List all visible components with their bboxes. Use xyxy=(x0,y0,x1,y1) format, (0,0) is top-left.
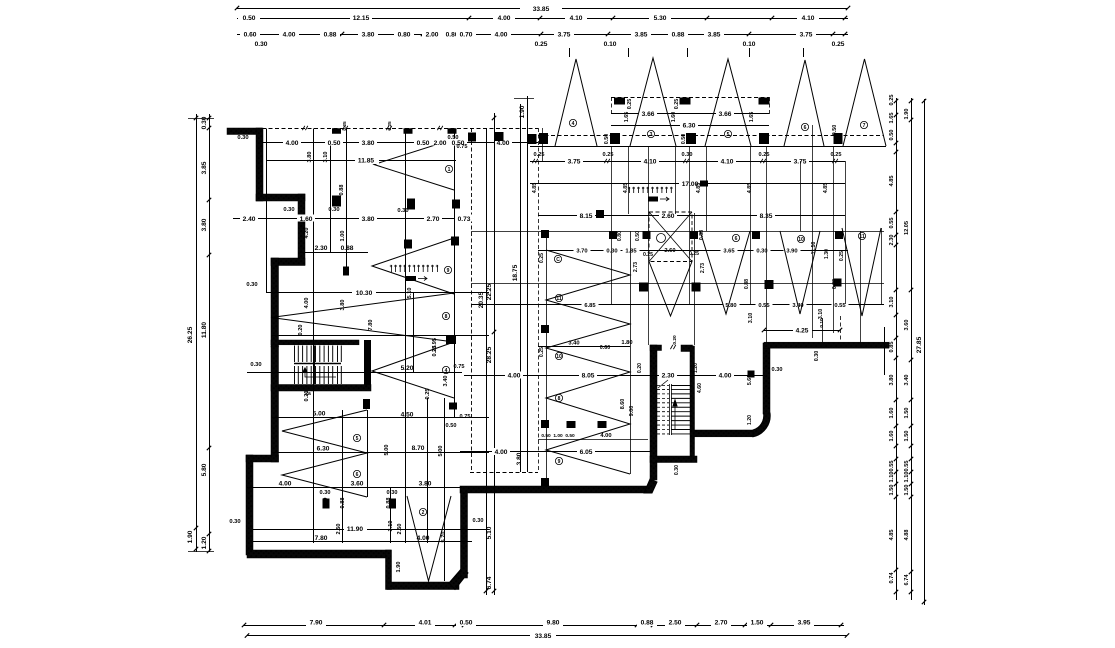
svg-text:11.80: 11.80 xyxy=(201,322,208,338)
line y231 xyxy=(471,231,884,233)
svg-text:1.60: 1.60 xyxy=(671,112,677,123)
stair S1 rail xyxy=(294,363,341,365)
wall west x271 lower xyxy=(271,346,279,462)
wall chamfer bottom-centre xyxy=(449,568,468,590)
svg-text:1.50: 1.50 xyxy=(904,431,910,442)
svg-text:3.75: 3.75 xyxy=(568,159,581,166)
svg-text:1: 1 xyxy=(448,167,451,173)
wall stair-room jamb xyxy=(364,340,371,352)
dim line y451 xyxy=(460,451,650,453)
svg-text:1.85: 1.85 xyxy=(625,249,637,255)
svg-text:1.90: 1.90 xyxy=(396,562,402,573)
dim line y330 4.25 xyxy=(764,330,840,332)
labels y218 xyxy=(240,215,258,222)
svg-text:5.30: 5.30 xyxy=(654,15,667,22)
svg-text:0.80: 0.80 xyxy=(617,231,623,241)
svg-text:0.25: 0.25 xyxy=(539,347,545,357)
svg-text:7.80: 7.80 xyxy=(315,535,328,542)
columns row y138 xyxy=(528,134,537,144)
svg-text:0.25: 0.25 xyxy=(627,99,633,110)
svg-text:2.50: 2.50 xyxy=(336,524,342,535)
column left of wall corner xyxy=(748,371,755,378)
labels y529 y543 xyxy=(344,525,367,533)
labels y160 xyxy=(355,156,379,164)
wall east x763 xyxy=(763,343,770,414)
wall stairwell west x650 xyxy=(650,345,657,480)
columns row y200 xyxy=(407,199,415,210)
long dashed line y135 right xyxy=(538,135,884,137)
svg-text:8.05: 8.05 xyxy=(582,373,595,380)
svg-text:0.25: 0.25 xyxy=(839,251,845,261)
dimension chain bottom row1 xyxy=(244,625,844,627)
svg-text:0.50: 0.50 xyxy=(604,134,610,145)
svg-text:0.88: 0.88 xyxy=(641,620,654,627)
svg-text:1.30: 1.30 xyxy=(824,249,830,259)
wall stair-room bottom xyxy=(271,385,371,392)
svg-text:4.85: 4.85 xyxy=(747,183,753,194)
svg-text:3.10: 3.10 xyxy=(889,297,895,308)
svg-text:0.10: 0.10 xyxy=(743,41,756,48)
svg-text:0.30: 0.30 xyxy=(606,249,617,255)
interior vertical x266 xyxy=(266,129,268,293)
wall west x298 xyxy=(298,194,305,265)
column x451 y340 xyxy=(446,336,456,344)
svg-text:0.20: 0.20 xyxy=(672,335,678,345)
svg-text:3.80: 3.80 xyxy=(516,452,523,465)
svg-text:0.25: 0.25 xyxy=(832,41,845,48)
svg-text:3.80: 3.80 xyxy=(362,140,375,147)
svg-text:0.73: 0.73 xyxy=(458,216,471,223)
svg-text:0.88: 0.88 xyxy=(324,32,337,39)
svg-text:4.85: 4.85 xyxy=(823,183,829,194)
wall stairwell bottom xyxy=(650,456,697,463)
elevator X-box xyxy=(649,212,692,262)
svg-text:5.00: 5.00 xyxy=(438,446,444,457)
svg-text:8.70: 8.70 xyxy=(412,445,425,452)
svg-text:0.50: 0.50 xyxy=(635,231,641,241)
svg-text:3.10: 3.10 xyxy=(748,313,754,324)
interior line y252 xyxy=(300,252,368,254)
columns row y241 xyxy=(404,240,412,249)
interior line y160 xyxy=(266,160,456,162)
svg-text:0.55: 0.55 xyxy=(889,461,895,472)
svg-text:8.15: 8.15 xyxy=(580,213,593,220)
svg-text:3.80: 3.80 xyxy=(362,216,375,223)
columns on top dashed line xyxy=(332,128,341,134)
dim line y250 xyxy=(538,250,848,252)
svg-text:3.60: 3.60 xyxy=(351,481,364,488)
block dim line y113 xyxy=(611,113,769,115)
svg-text:12.05: 12.05 xyxy=(904,221,910,235)
svg-text:1.65: 1.65 xyxy=(889,113,895,124)
wall end line x884 xyxy=(884,327,886,375)
svg-text:7.80: 7.80 xyxy=(368,320,374,331)
svg-text:5.00: 5.00 xyxy=(384,445,390,456)
svg-text:11.90: 11.90 xyxy=(347,526,363,533)
svg-text:2.60: 2.60 xyxy=(662,213,675,220)
svg-text:1.00: 1.00 xyxy=(340,231,346,242)
svg-text:4.10: 4.10 xyxy=(570,15,583,22)
dashed border x471 xyxy=(471,128,473,472)
downward truss V3 xyxy=(842,228,881,316)
svg-text:6: 6 xyxy=(804,125,807,131)
svg-text:2.00: 2.00 xyxy=(434,140,447,147)
svg-text:4.00: 4.00 xyxy=(497,140,510,147)
svg-text:3.80: 3.80 xyxy=(307,152,313,163)
hatch row left with arrow xyxy=(391,265,393,272)
svg-text:0.50: 0.50 xyxy=(460,620,473,627)
interior line y218 xyxy=(233,218,471,220)
truss V0 under box xyxy=(649,262,692,317)
svg-text:2.30: 2.30 xyxy=(315,245,328,252)
dim line y375 xyxy=(464,375,765,377)
svg-text:2.73: 2.73 xyxy=(700,263,706,273)
svg-text:1.50: 1.50 xyxy=(751,620,764,627)
roof truss triangle T4 xyxy=(784,60,824,146)
dim line x486 20.35 xyxy=(486,128,488,595)
svg-text:3.85: 3.85 xyxy=(201,161,208,174)
svg-text:11: 11 xyxy=(859,234,865,240)
svg-text:1.50: 1.50 xyxy=(904,408,910,419)
svg-text:4.00: 4.00 xyxy=(498,15,511,22)
downward truss V2 xyxy=(780,231,820,314)
truss zigzag Z5 xyxy=(282,410,367,497)
svg-text:22.25: 22.25 xyxy=(486,283,493,300)
truss zigzag Z1 xyxy=(374,139,454,190)
svg-text:1.60: 1.60 xyxy=(889,431,895,442)
dim line x494 22.25/28.25 xyxy=(494,113,496,595)
line y283 xyxy=(471,283,884,285)
svg-text:4.00: 4.00 xyxy=(719,373,732,380)
svg-text:3: 3 xyxy=(650,132,653,138)
svg-text:1.20: 1.20 xyxy=(747,415,753,425)
dimension chain right R2 xyxy=(911,98,913,600)
svg-text:3.75: 3.75 xyxy=(558,32,571,39)
wall stairwell top xyxy=(650,345,662,351)
svg-text:8.60: 8.60 xyxy=(620,399,626,410)
svg-text:0.25: 0.25 xyxy=(889,95,895,106)
hatch row right with arrow xyxy=(629,187,631,193)
svg-text:0.50: 0.50 xyxy=(832,125,838,136)
svg-text:1.65: 1.65 xyxy=(624,112,630,123)
svg-text:5: 5 xyxy=(356,436,359,442)
svg-text:23.95: 23.95 xyxy=(432,338,438,352)
left building top dashed wall line xyxy=(262,128,538,130)
svg-text:0.30: 0.30 xyxy=(674,465,680,475)
interior line y541 xyxy=(253,541,472,543)
svg-text:9: 9 xyxy=(558,459,561,465)
svg-text:9.80: 9.80 xyxy=(547,620,560,627)
svg-text:20.35: 20.35 xyxy=(478,291,485,308)
roof truss triangle T5 xyxy=(843,59,886,146)
svg-text:2.70: 2.70 xyxy=(427,216,440,223)
svg-text:0.30: 0.30 xyxy=(283,207,294,213)
svg-text:6.30: 6.30 xyxy=(317,446,330,453)
svg-text:0.88: 0.88 xyxy=(339,185,345,196)
svg-text:10: 10 xyxy=(798,237,804,243)
dashed line y472 xyxy=(470,472,538,474)
svg-text:0.55: 0.55 xyxy=(889,218,895,229)
svg-text:2.70: 2.70 xyxy=(715,620,728,627)
svg-text:4.00: 4.00 xyxy=(495,32,508,39)
stair S1 divider xyxy=(314,346,316,385)
interior line y417 xyxy=(272,417,489,419)
svg-text:4.01: 4.01 xyxy=(419,620,432,627)
svg-text:5.80: 5.80 xyxy=(201,463,208,476)
svg-text:4.00: 4.00 xyxy=(417,535,430,542)
svg-text:3.40: 3.40 xyxy=(443,376,449,387)
svg-text:4.00: 4.00 xyxy=(304,298,310,309)
dim line y161 xyxy=(530,161,845,163)
stair S1 arrow xyxy=(305,370,336,377)
svg-text:9: 9 xyxy=(447,268,450,274)
svg-text:3.95: 3.95 xyxy=(798,620,811,627)
svg-text:0.25: 0.25 xyxy=(535,41,548,48)
wall jog x385 xyxy=(386,550,392,590)
center dim line y346 xyxy=(538,346,630,348)
svg-text:0.20: 0.20 xyxy=(637,363,643,373)
svg-text:5: 5 xyxy=(727,132,730,138)
wall stairwell east x690 xyxy=(690,346,695,457)
svg-text:4.20: 4.20 xyxy=(304,228,310,239)
wall bottom y580 xyxy=(387,582,459,590)
svg-text:7: 7 xyxy=(863,123,866,129)
dimension chain top row3 xyxy=(237,34,848,36)
svg-text:0.30: 0.30 xyxy=(397,208,408,214)
svg-text:28.25: 28.25 xyxy=(486,346,493,363)
svg-text:2.30: 2.30 xyxy=(662,373,675,380)
svg-text:7.90: 7.90 xyxy=(310,620,323,627)
svg-text:0.50: 0.50 xyxy=(681,134,687,145)
svg-text:1.90: 1.90 xyxy=(519,105,526,118)
svg-text:0.10: 0.10 xyxy=(604,41,617,48)
block columns y101 xyxy=(614,98,625,105)
svg-text:0.88: 0.88 xyxy=(744,279,750,289)
svg-text:2.50: 2.50 xyxy=(397,524,403,535)
svg-text:0.75: 0.75 xyxy=(460,414,471,420)
svg-text:3.80: 3.80 xyxy=(362,32,375,39)
svg-text:0.30: 0.30 xyxy=(328,207,339,213)
svg-text:0.85: 0.85 xyxy=(889,342,895,353)
center truss zigzag column xyxy=(546,250,630,474)
svg-text:3.66: 3.66 xyxy=(642,111,655,118)
svg-text:4.10: 4.10 xyxy=(644,159,657,166)
svg-text:1.00: 1.00 xyxy=(553,433,563,439)
verticals above right wall xyxy=(822,318,824,342)
svg-text:4: 4 xyxy=(445,368,448,374)
wall step y258 xyxy=(271,258,305,266)
svg-text:5.60: 5.60 xyxy=(747,375,753,385)
svg-text:0.25: 0.25 xyxy=(539,253,545,263)
svg-text:0.30: 0.30 xyxy=(814,351,820,362)
svg-text:0.20: 0.20 xyxy=(304,391,310,402)
svg-text:2.50: 2.50 xyxy=(669,620,682,627)
svg-text:0.88: 0.88 xyxy=(341,245,354,252)
svg-text:6.05: 6.05 xyxy=(580,449,593,456)
interior line y529 xyxy=(253,529,489,531)
interior vertical x330 xyxy=(330,143,332,252)
svg-text:0.25: 0.25 xyxy=(643,252,653,258)
svg-text:C: C xyxy=(556,257,560,263)
svg-text:5.00: 5.00 xyxy=(313,411,326,418)
wall top-left xyxy=(227,128,262,135)
interior line y487 xyxy=(247,487,462,489)
svg-text:1.60: 1.60 xyxy=(889,408,895,419)
dimension chain left outer 26.25/1.90 xyxy=(196,114,198,552)
dimension chain top overall 33.85 xyxy=(237,8,848,10)
svg-text:3.80: 3.80 xyxy=(889,375,895,386)
svg-text:18.75: 18.75 xyxy=(512,264,519,281)
roof truss triangle T3 xyxy=(705,59,751,146)
svg-text:11: 11 xyxy=(556,296,562,302)
wall top y343 right wing xyxy=(764,342,889,348)
stair S2 cut line xyxy=(658,380,668,388)
svg-text:2.30: 2.30 xyxy=(889,235,895,246)
svg-text:6.74: 6.74 xyxy=(904,574,910,586)
door slash stairwell xyxy=(670,345,675,349)
svg-text:3.60: 3.60 xyxy=(904,320,910,331)
svg-text:33.85: 33.85 xyxy=(533,6,550,13)
svg-text:9.00: 9.00 xyxy=(629,406,635,417)
interior vertical x454 xyxy=(454,129,456,419)
dim line y304 xyxy=(471,304,884,306)
right building top dashed block xyxy=(611,97,769,99)
svg-text:6.74: 6.74 xyxy=(486,576,493,589)
vertical x812 xyxy=(812,125,814,338)
wall bottom y486 centre wing xyxy=(460,486,648,493)
stair S2 treads east flight xyxy=(671,385,690,387)
svg-text:4.10: 4.10 xyxy=(721,159,734,166)
interior vertical x390 xyxy=(390,487,392,543)
svg-text:2.00: 2.00 xyxy=(426,32,439,39)
roof truss triangle T2 xyxy=(630,58,676,146)
dim line y183 17.00 xyxy=(530,183,845,185)
svg-text:0.55: 0.55 xyxy=(834,303,846,309)
svg-text:1.60: 1.60 xyxy=(300,216,313,223)
svg-text:3.75: 3.75 xyxy=(800,32,813,39)
svg-text:3.80: 3.80 xyxy=(419,481,432,488)
svg-text:0.74: 0.74 xyxy=(889,572,895,584)
svg-text:1.90: 1.90 xyxy=(904,109,910,120)
columns row y404 xyxy=(363,399,370,409)
svg-text:3.10: 3.10 xyxy=(323,152,329,163)
svg-text:0.20: 0.20 xyxy=(298,325,304,336)
svg-text:2: 2 xyxy=(422,510,425,516)
svg-text:1.20: 1.20 xyxy=(693,363,699,373)
interior vertical x427 xyxy=(427,398,429,543)
svg-text:3.40: 3.40 xyxy=(568,341,579,347)
svg-text:4.00: 4.00 xyxy=(508,373,521,380)
svg-text:2.40: 2.40 xyxy=(243,216,256,223)
svg-text:0.88: 0.88 xyxy=(340,498,346,509)
svg-text:4.00: 4.00 xyxy=(286,140,299,147)
svg-text:0.50: 0.50 xyxy=(541,433,551,439)
svg-text:0.50: 0.50 xyxy=(565,433,575,439)
wall west upper xyxy=(256,128,263,201)
svg-text:0.55: 0.55 xyxy=(758,303,770,309)
svg-text:4.10: 4.10 xyxy=(802,15,815,22)
svg-text:2.60: 2.60 xyxy=(664,248,675,254)
svg-text:0.25: 0.25 xyxy=(674,99,680,110)
svg-text:0.25: 0.25 xyxy=(759,152,770,158)
svg-text:0.60: 0.60 xyxy=(600,345,611,351)
top grid stub ticks xyxy=(569,48,571,57)
wall west x271 xyxy=(271,258,279,347)
column x346 y271 xyxy=(343,267,349,276)
columns row y503 xyxy=(323,499,330,509)
truss V bottom xyxy=(407,496,451,581)
svg-text:0.25: 0.25 xyxy=(689,251,699,257)
interior line y372 xyxy=(247,372,462,374)
svg-text:3.10: 3.10 xyxy=(388,521,394,532)
columns row y191 xyxy=(332,196,341,207)
truss zigzag Z2 xyxy=(372,238,454,294)
wall chamfer x650 xyxy=(644,479,657,493)
svg-text:6.30: 6.30 xyxy=(683,123,696,130)
svg-text:0.30: 0.30 xyxy=(473,518,484,524)
svg-text:1.80: 1.80 xyxy=(621,340,632,346)
svg-text:0.30: 0.30 xyxy=(772,367,783,373)
svg-text:4.60: 4.60 xyxy=(697,383,703,393)
stair S2 rail xyxy=(669,384,671,435)
svg-text:0.30: 0.30 xyxy=(246,282,257,288)
svg-text:8: 8 xyxy=(558,396,561,402)
svg-text:3.80: 3.80 xyxy=(201,218,208,231)
dimension chain right R3 27.85 xyxy=(924,99,926,605)
interior line y292 xyxy=(266,292,489,294)
svg-text:5.10: 5.10 xyxy=(486,526,493,539)
svg-text:0.50: 0.50 xyxy=(243,15,256,22)
svg-text:4.50: 4.50 xyxy=(401,412,414,419)
dimension chain top row2 xyxy=(237,18,848,20)
column on 17.00 line xyxy=(700,181,708,187)
svg-text:1.50: 1.50 xyxy=(889,485,895,496)
svg-text:6: 6 xyxy=(735,236,738,242)
svg-text:3.40: 3.40 xyxy=(904,375,910,386)
wall y430 right of stairwell xyxy=(694,430,753,437)
interior vertical x313 xyxy=(313,129,315,544)
svg-text:0.30: 0.30 xyxy=(387,490,398,496)
stair S2 treads west flight dashed xyxy=(657,385,669,387)
dim line x527 1.90 xyxy=(527,96,529,472)
dim line y439 xyxy=(538,439,648,441)
svg-text:3.80: 3.80 xyxy=(340,300,346,311)
svg-text:1.50: 1.50 xyxy=(904,485,910,496)
svg-text:0.30: 0.30 xyxy=(756,249,767,255)
dimension chain right R1 xyxy=(896,98,898,600)
svg-text:0.25: 0.25 xyxy=(425,389,431,400)
svg-text:4.85: 4.85 xyxy=(532,183,538,194)
svg-text:0.30: 0.30 xyxy=(229,519,240,525)
svg-text:0.25: 0.25 xyxy=(831,152,842,158)
wall east x460 of left wing xyxy=(461,489,468,578)
block dim line y125 xyxy=(611,125,769,127)
svg-text:5.10: 5.10 xyxy=(407,288,413,299)
truss zigzag Z4 xyxy=(372,342,454,398)
svg-text:4.88: 4.88 xyxy=(904,530,910,541)
svg-text:0.50: 0.50 xyxy=(417,140,430,147)
svg-text:11.85: 11.85 xyxy=(358,158,374,165)
interior vertical x346 xyxy=(346,129,348,269)
dimension chain left inner xyxy=(209,114,211,552)
labels left building row y142 xyxy=(283,139,301,146)
stair S1 treads lower flight xyxy=(294,366,296,384)
stair S1 treads upper flight xyxy=(294,346,296,363)
svg-text:0.50: 0.50 xyxy=(448,135,459,141)
svg-text:4.00: 4.00 xyxy=(600,433,611,439)
truss zigzag Z3 xyxy=(271,293,454,342)
wall rounded corner xyxy=(753,413,770,437)
